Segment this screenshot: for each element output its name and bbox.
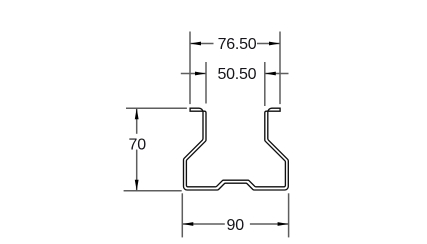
- dim 90 extension line right: [288, 193, 290, 237]
- dim 90 line right segment: [250, 223, 289, 225]
- dim 90 line left segment: [182, 223, 225, 225]
- dim 76.50 arrow left: [190, 42, 201, 46]
- dim 76.50 line right segment: [257, 43, 280, 45]
- dim 90 extension line left: [181, 193, 183, 237]
- dim 70 arrow down: [135, 180, 139, 191]
- dim 70 arrow up: [135, 108, 139, 119]
- dim 50.50 arrow left: [195, 72, 206, 76]
- dim 70 extension line top: [126, 107, 187, 109]
- dim 50.50 tail left: [181, 73, 206, 75]
- dim 50.50 arrow right: [265, 72, 276, 76]
- dim 50.50 tail right: [265, 73, 289, 75]
- dim 70 extension line bottom: [124, 190, 182, 192]
- dim 76.50 arrow right: [269, 42, 280, 46]
- dim 90 arrow left: [182, 222, 193, 226]
- svg-text:70: 70: [129, 136, 147, 153]
- dim 50.50 extension line left: [205, 62, 207, 104]
- svg-text:50.50: 50.50: [218, 66, 257, 83]
- svg-text:90: 90: [227, 217, 245, 234]
- dim 70 line top segment: [136, 108, 138, 134]
- dim 50.50 extension line right: [264, 62, 266, 106]
- dim 76.50 line left segment: [190, 43, 214, 45]
- dim 70 line bottom segment: [136, 150, 138, 191]
- dim 76.50 extension line left: [189, 32, 191, 105]
- dim 90 arrow right: [278, 222, 289, 226]
- dim 76.50 extension line right: [279, 32, 281, 105]
- profile outline (strut channel cross-section, sheet metal double line): [184, 108, 289, 190]
- svg-text:76.50: 76.50: [218, 36, 257, 53]
